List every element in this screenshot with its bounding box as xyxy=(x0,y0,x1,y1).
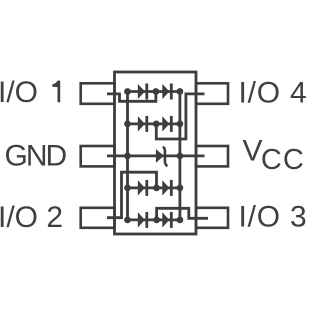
pin 1 box (I/O 1) xyxy=(81,83,115,104)
TVS zener DZ xyxy=(156,149,164,163)
junction VCC rail / VCC pin wire xyxy=(177,153,184,160)
junction GND rail / GND pin wire xyxy=(124,153,131,160)
junction VCC rail / branch 4 xyxy=(177,185,184,192)
junction GND rail / branch 2 xyxy=(124,121,131,128)
svg-text:GND: GND xyxy=(5,140,67,173)
svg-text:I/O 2: I/O 2 xyxy=(0,201,63,234)
node I/O4 (branch 2 midpoint) xyxy=(153,121,160,128)
wire I/O3 pin to D7-D8 junction xyxy=(157,208,208,220)
diode D6 xyxy=(162,180,169,195)
node I/O3 (branch 5 midpoint) xyxy=(153,217,160,224)
svg-text:I/O 4: I/O 4 xyxy=(239,77,308,110)
IC body outline xyxy=(115,72,197,234)
pin 5 box (VCC) xyxy=(196,146,228,166)
svg-text:CC: CC xyxy=(261,144,305,176)
svg-text:V: V xyxy=(243,134,263,167)
wire I/O1 pin to D1-D2 junction xyxy=(107,92,156,102)
svg-text:I/O 3: I/O 3 xyxy=(239,201,308,234)
junction GND rail / branch 4 xyxy=(124,185,131,192)
VCC rail xyxy=(178,92,181,220)
wire I/O2 pin to D5-D6 junction xyxy=(107,172,157,218)
GND rail xyxy=(126,92,129,220)
diode D1 xyxy=(138,84,145,99)
pin 2 box (GND) xyxy=(81,146,115,166)
branch 4 wire xyxy=(128,186,180,189)
branch 3 wire (TVS) xyxy=(128,154,180,157)
junction VCC rail / branch 1 xyxy=(177,88,184,95)
branch 1 wire xyxy=(128,90,180,93)
junction GND rail / branch 1 xyxy=(124,88,131,95)
junction VCC rail / branch 2 xyxy=(177,121,184,128)
diode D3 xyxy=(138,116,145,131)
diode D2 xyxy=(162,84,169,99)
wire GND pin to ground rail xyxy=(107,154,128,157)
node I/O1 (branch 1 midpoint) xyxy=(153,88,160,95)
node I/O2 (branch 4 midpoint) xyxy=(153,185,160,192)
diode D4 xyxy=(162,116,169,131)
pin 3 box (I/O 2) xyxy=(81,208,115,228)
pin 4 box (I/O 3) xyxy=(196,208,228,228)
diode D7 xyxy=(138,212,145,227)
svg-text:I/O: I/O xyxy=(0,76,38,109)
diode D8 xyxy=(162,212,169,227)
diode D5 xyxy=(138,180,145,195)
junction GND rail / branch 5 xyxy=(124,217,131,224)
wire I/O4 pin to D3-D4 junction xyxy=(156,94,204,139)
branch 5 wire xyxy=(128,218,180,221)
digit 1 of I/O 1 xyxy=(52,81,60,103)
wire VCC pin to VCC rail xyxy=(180,154,205,157)
junction VCC rail / branch 5 xyxy=(177,217,184,224)
branch 2 wire xyxy=(128,123,180,126)
pin 6 box (I/O 4) xyxy=(196,83,228,104)
